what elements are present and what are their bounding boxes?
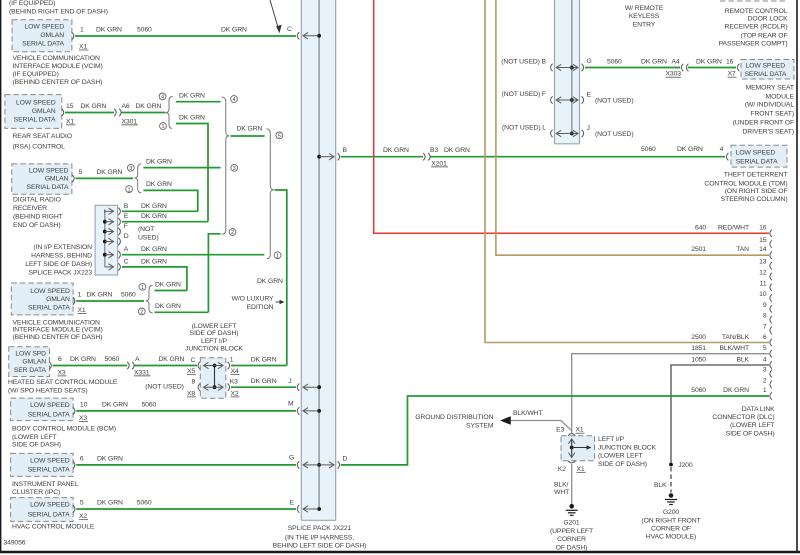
svg-text:5060: 5060 bbox=[691, 387, 706, 394]
svg-text:G200: G200 bbox=[663, 509, 680, 516]
svg-text:DK GRN: DK GRN bbox=[146, 158, 172, 165]
svg-text:BODY CONTROL MODULE (BCM): BODY CONTROL MODULE (BCM) bbox=[12, 426, 116, 433]
circled 2 VCIM2 bbox=[138, 308, 145, 316]
svg-text:1: 1 bbox=[128, 187, 131, 193]
wire RSA branch 4 bbox=[176, 93, 221, 102]
svg-text:SIDE OF DASH): SIDE OF DASH) bbox=[726, 430, 775, 437]
DLC pin 15 bbox=[759, 237, 772, 248]
svg-text:X201: X201 bbox=[431, 160, 447, 167]
DLC pin 7 bbox=[763, 324, 772, 335]
svg-text:5060: 5060 bbox=[607, 59, 622, 66]
svg-text:(ON RIGHT SIDE OF: (ON RIGHT SIDE OF bbox=[725, 188, 788, 195]
svg-text:VEHICLE COMMUNICATION: VEHICLE COMMUNICATION bbox=[13, 55, 100, 62]
HVAC module box bbox=[11, 498, 74, 522]
wire X2 to JX221 J bbox=[231, 378, 296, 387]
VCIM1 module label bbox=[13, 55, 103, 86]
wire JX223 B bbox=[122, 210, 198, 212]
DLC pin 2 bbox=[763, 378, 772, 389]
junction block row X8/X2 bbox=[145, 378, 239, 397]
svg-text:B: B bbox=[343, 147, 348, 154]
svg-text:LOW SPEED: LOW SPEED bbox=[30, 288, 70, 295]
svg-text:1: 1 bbox=[276, 253, 279, 259]
inline connector X331 bbox=[127, 362, 134, 369]
DLC pin 4 bbox=[691, 356, 772, 368]
circled 3 right bbox=[231, 164, 238, 172]
svg-text:5060: 5060 bbox=[121, 292, 136, 299]
digital radio branch brace bbox=[134, 164, 141, 193]
RCDLR label bbox=[719, 8, 788, 48]
svg-text:SERIAL DATA: SERIAL DATA bbox=[14, 117, 56, 124]
svg-text:X1: X1 bbox=[79, 44, 87, 51]
splice pack JX221 band bbox=[301, 0, 335, 520]
svg-text:SERIAL DATA: SERIAL DATA bbox=[736, 158, 778, 165]
DLC pin 13 bbox=[759, 259, 772, 270]
junction block lower label bbox=[598, 436, 656, 468]
svg-text:(LOWER LEFT: (LOWER LEFT bbox=[12, 434, 57, 441]
wire digital radio to brace bbox=[76, 169, 134, 178]
svg-text:W/O LUXURY: W/O LUXURY bbox=[232, 295, 274, 302]
svg-text:6: 6 bbox=[58, 356, 62, 363]
svg-text:J: J bbox=[288, 378, 291, 385]
svg-text:5: 5 bbox=[80, 500, 84, 507]
keyless tap L/J bbox=[502, 125, 634, 139]
DLC pin 16 bbox=[695, 224, 772, 237]
svg-text:SERIAL DATA: SERIAL DATA bbox=[27, 184, 69, 191]
svg-text:JUNCTION BLOCK: JUNCTION BLOCK bbox=[598, 444, 656, 451]
svg-text:LOW SPD: LOW SPD bbox=[15, 350, 46, 357]
wire RSA branch 1 down to JX223 E bbox=[176, 115, 208, 222]
wire brace2 output down to junction block X4 bbox=[257, 190, 287, 366]
svg-text:16: 16 bbox=[759, 224, 767, 231]
digital radio module label bbox=[13, 197, 63, 229]
circled 1 brace2 bbox=[274, 252, 281, 260]
svg-text:K2: K2 bbox=[558, 466, 566, 473]
svg-text:(NOT USED) L: (NOT USED) L bbox=[502, 125, 546, 132]
VCIM2 module label bbox=[13, 319, 103, 341]
svg-text:C: C bbox=[124, 258, 129, 265]
svg-text:A: A bbox=[135, 356, 140, 363]
svg-text:CORNER OF: CORNER OF bbox=[651, 526, 691, 533]
svg-text:C: C bbox=[287, 26, 292, 33]
circled 1 left RSA bbox=[160, 123, 167, 131]
digital radio module box bbox=[12, 164, 72, 194]
svg-text:(NOT: (NOT bbox=[138, 226, 154, 233]
keyless splice bus bbox=[571, 0, 573, 134]
svg-text:2: 2 bbox=[140, 310, 143, 316]
circled 2 right bbox=[229, 229, 236, 237]
svg-text:REMOTE CONTROL: REMOTE CONTROL bbox=[725, 8, 788, 15]
svg-text:RED/WHT: RED/WHT bbox=[718, 224, 749, 231]
wire IPC to JX221 G bbox=[76, 455, 296, 465]
svg-text:349056: 349056 bbox=[3, 539, 25, 546]
E3 X1 labels bbox=[556, 427, 584, 434]
svg-text:E: E bbox=[124, 213, 129, 220]
svg-text:X331: X331 bbox=[134, 369, 150, 376]
memory seat module label bbox=[733, 85, 795, 136]
svg-text:DK GRN: DK GRN bbox=[237, 126, 263, 133]
JX223 pin F (not used) bbox=[103, 223, 154, 235]
svg-text:DK GRN: DK GRN bbox=[97, 455, 123, 462]
ground G200 bbox=[665, 493, 677, 504]
RSA module box bbox=[5, 95, 62, 129]
svg-text:DK GRN: DK GRN bbox=[155, 303, 181, 310]
W/ REMOTE KEYLESS ENTRY label bbox=[625, 5, 664, 29]
svg-text:DK GRN: DK GRN bbox=[251, 356, 277, 363]
svg-text:(NOT USED) F: (NOT USED) F bbox=[502, 91, 546, 98]
svg-text:(BEHIND RIGHT END OF DASH): (BEHIND RIGHT END OF DASH) bbox=[9, 9, 108, 16]
svg-text:8: 8 bbox=[192, 378, 196, 385]
VCIM1 connector cup bbox=[72, 32, 74, 39]
node J200 bbox=[669, 462, 693, 469]
svg-text:10: 10 bbox=[759, 291, 767, 298]
svg-text:DK GRN: DK GRN bbox=[136, 103, 162, 110]
svg-text:X3: X3 bbox=[79, 415, 87, 422]
svg-text:INTERFACE MODULE (VCIM): INTERFACE MODULE (VCIM) bbox=[13, 327, 103, 334]
svg-text:F: F bbox=[124, 223, 128, 230]
svg-text:LOW SPEED: LOW SPEED bbox=[30, 502, 70, 509]
svg-text:DK GRN: DK GRN bbox=[251, 378, 277, 385]
TDM connector cup bbox=[726, 153, 728, 160]
svg-text:DK GRN: DK GRN bbox=[81, 103, 107, 110]
svg-text:SPLICE PACK JX223: SPLICE PACK JX223 bbox=[28, 269, 92, 276]
VCIM2 connector cup bbox=[73, 297, 75, 304]
svg-text:DK GRN: DK GRN bbox=[179, 93, 205, 100]
wire DR branch 1 down to JX223 B bbox=[143, 181, 197, 211]
svg-text:E: E bbox=[587, 92, 592, 99]
JX221 label bbox=[273, 525, 367, 549]
svg-text:5060: 5060 bbox=[137, 27, 152, 34]
svg-text:(LOWER LEFT: (LOWER LEFT bbox=[598, 453, 643, 460]
collector brace 2 bbox=[267, 129, 274, 259]
TDM module label bbox=[704, 172, 787, 204]
svg-text:HARNESS, BEHIND: HARNESS, BEHIND bbox=[31, 253, 92, 260]
RSA branch brace bbox=[166, 96, 173, 128]
svg-text:2: 2 bbox=[763, 378, 767, 385]
svg-text:GMLAN: GMLAN bbox=[45, 176, 69, 183]
svg-text:RECEIVER (RCDLR): RECEIVER (RCDLR) bbox=[725, 24, 788, 31]
svg-text:SPLICE PACK JX221: SPLICE PACK JX221 bbox=[288, 525, 352, 532]
svg-text:(NOT USED) B: (NOT USED) B bbox=[501, 59, 546, 66]
svg-text:(BEHIND CENTER OF DASH): (BEHIND CENTER OF DASH) bbox=[13, 79, 103, 86]
pointer arrow to wire bbox=[270, 0, 282, 33]
DLC pin 8 bbox=[763, 313, 772, 324]
wire BLK/WHT K2 to G201 bbox=[554, 464, 572, 504]
svg-text:DK GRN: DK GRN bbox=[179, 115, 205, 122]
svg-text:DK GRN: DK GRN bbox=[87, 292, 113, 299]
svg-text:DK GRN: DK GRN bbox=[97, 500, 123, 507]
svg-text:1: 1 bbox=[78, 292, 82, 299]
wire RSA to X301 to brace bbox=[65, 103, 166, 125]
wire VCIM2 branch 1 bbox=[155, 281, 187, 290]
svg-text:DK GRN: DK GRN bbox=[723, 387, 749, 394]
splice pack JX223 box bbox=[95, 205, 118, 275]
svg-text:(BEHIND CENTER OF DASH): (BEHIND CENTER OF DASH) bbox=[13, 334, 103, 341]
svg-text:SERIAL DATA: SERIAL DATA bbox=[28, 511, 70, 518]
svg-text:(RSA) CONTROL: (RSA) CONTROL bbox=[13, 144, 66, 151]
svg-text:(UPPER LEFT: (UPPER LEFT bbox=[550, 528, 593, 535]
circled 4 right bbox=[231, 96, 238, 104]
svg-text:(LOWER LEFT: (LOWER LEFT bbox=[192, 323, 237, 330]
svg-text:JUNCTION BLOCK: JUNCTION BLOCK bbox=[185, 345, 243, 352]
svg-text:LOW SPEED: LOW SPEED bbox=[29, 167, 69, 174]
svg-text:X2: X2 bbox=[231, 390, 239, 397]
svg-text:(LOWER LEFT: (LOWER LEFT bbox=[730, 422, 775, 429]
wire DK GRN DLC pin 1 to JX221 D bbox=[341, 396, 769, 465]
svg-text:10: 10 bbox=[80, 401, 88, 408]
K2 X1 labels bbox=[558, 466, 586, 473]
svg-text:BLK/WHT: BLK/WHT bbox=[719, 345, 749, 352]
ground G201 bbox=[566, 504, 578, 515]
svg-text:(UNDER FRONT OF: (UNDER FRONT OF bbox=[733, 120, 794, 127]
cut-off module label top left bbox=[9, 0, 108, 16]
svg-text:3: 3 bbox=[233, 166, 236, 172]
svg-text:FRONT SEAT): FRONT SEAT) bbox=[750, 111, 794, 118]
svg-text:DK GRN: DK GRN bbox=[221, 27, 247, 34]
JX223 pin B bbox=[105, 203, 167, 215]
svg-text:(BEHIND RIGHT: (BEHIND RIGHT bbox=[13, 213, 63, 220]
frame borders bbox=[0, 0, 2, 552]
svg-text:E3: E3 bbox=[556, 427, 564, 434]
IPC module box bbox=[11, 453, 74, 476]
svg-text:E: E bbox=[290, 500, 295, 507]
svg-text:GMLAN: GMLAN bbox=[32, 108, 56, 115]
svg-text:1050: 1050 bbox=[691, 356, 706, 363]
svg-text:J200: J200 bbox=[678, 462, 693, 469]
circled 4 left bbox=[159, 93, 166, 101]
svg-text:4: 4 bbox=[232, 97, 235, 103]
svg-text:(NOT USED): (NOT USED) bbox=[145, 383, 184, 390]
svg-text:X1: X1 bbox=[577, 466, 585, 473]
heated seat connector cup bbox=[49, 362, 51, 369]
wire JX223 A to brace2 bbox=[122, 254, 264, 256]
svg-text:3: 3 bbox=[763, 367, 767, 374]
svg-text:KEYLESS: KEYLESS bbox=[629, 13, 660, 20]
svg-text:(IF EQUIPPED): (IF EQUIPPED) bbox=[13, 71, 59, 78]
wire TAN to DLC pin 14 bbox=[496, 0, 769, 255]
DLC pin 12 bbox=[759, 270, 772, 281]
svg-text:INTERFACE MODULE (VCIM): INTERFACE MODULE (VCIM) bbox=[13, 63, 103, 70]
svg-text:BLK: BLK bbox=[736, 356, 749, 363]
junction block lower K2 bottom cup bbox=[568, 461, 575, 463]
wire JX223 E bbox=[122, 221, 208, 223]
svg-text:(NOT USED): (NOT USED) bbox=[595, 98, 634, 105]
JX221 tap G / D bbox=[289, 455, 348, 469]
svg-text:A4: A4 bbox=[672, 59, 680, 66]
JX223 pin C bbox=[105, 258, 167, 270]
wire BLK DLC pin 4 to J200 bbox=[671, 365, 769, 463]
svg-text:X1: X1 bbox=[66, 118, 74, 125]
wire BLK/WHT branch to ground distribution bbox=[500, 410, 572, 431]
junction block label upper bbox=[185, 323, 243, 353]
svg-text:B3: B3 bbox=[430, 147, 438, 154]
svg-text:TAN/BLK: TAN/BLK bbox=[722, 334, 750, 341]
ground distribution system label bbox=[415, 414, 494, 430]
svg-text:LOW SPEED: LOW SPEED bbox=[16, 100, 56, 107]
svg-text:LEFT I/P: LEFT I/P bbox=[598, 436, 624, 443]
svg-text:DK GRN: DK GRN bbox=[102, 401, 128, 408]
svg-text:5: 5 bbox=[763, 345, 767, 352]
svg-text:OF DASH): OF DASH) bbox=[556, 544, 588, 551]
svg-text:1: 1 bbox=[230, 357, 234, 364]
svg-text:X7: X7 bbox=[728, 71, 736, 78]
JX221 tap E bbox=[290, 500, 322, 513]
svg-text:(TOP REAR OF: (TOP REAR OF bbox=[741, 33, 788, 40]
svg-text:15: 15 bbox=[66, 103, 74, 110]
svg-text:LOW SPEED: LOW SPEED bbox=[24, 24, 64, 31]
svg-text:MODULE: MODULE bbox=[766, 93, 795, 100]
svg-text:G: G bbox=[289, 455, 294, 462]
DLC pin 1 bbox=[691, 387, 772, 400]
svg-text:TAN: TAN bbox=[736, 246, 749, 253]
svg-text:G201: G201 bbox=[563, 520, 580, 527]
wire VCIM2 branch 2 bbox=[155, 303, 209, 312]
junction block lower E3 top cup bbox=[568, 434, 575, 436]
wire G to memory seat module bbox=[585, 59, 737, 78]
svg-text:G: G bbox=[587, 58, 592, 65]
svg-text:X5: X5 bbox=[187, 368, 195, 375]
svg-text:LEFT SIDE OF DASH): LEFT SIDE OF DASH) bbox=[25, 261, 92, 268]
svg-text:LOW SPEED: LOW SPEED bbox=[30, 402, 70, 409]
svg-text:A: A bbox=[124, 246, 129, 253]
W/O LUXURY EDITION label bbox=[232, 295, 285, 311]
svg-text:SER DATA: SER DATA bbox=[14, 367, 47, 374]
JX221 tap M bbox=[288, 401, 321, 415]
svg-text:BLK/WHT: BLK/WHT bbox=[513, 410, 543, 417]
svg-text:SIDE OF DASH): SIDE OF DASH) bbox=[190, 330, 239, 337]
VCIM module box 1 bbox=[12, 20, 72, 52]
keyless tap F/E bbox=[502, 91, 634, 105]
svg-text:DOOR LOCK: DOOR LOCK bbox=[748, 16, 788, 23]
svg-text:SERIAL DATA: SERIAL DATA bbox=[28, 411, 70, 418]
svg-text:CLUSTER (IPC): CLUSTER (IPC) bbox=[12, 489, 60, 496]
svg-text:DK GRN: DK GRN bbox=[383, 147, 409, 154]
svg-text:5060: 5060 bbox=[137, 500, 152, 507]
svg-text:PASSENGER COMPT): PASSENGER COMPT) bbox=[719, 41, 788, 48]
svg-text:W/ REMOTE: W/ REMOTE bbox=[625, 5, 664, 12]
svg-text:GMLAN: GMLAN bbox=[40, 32, 64, 39]
svg-text:X303: X303 bbox=[666, 71, 682, 78]
svg-text:SIDE OF DASH): SIDE OF DASH) bbox=[598, 461, 647, 468]
svg-text:(IF EQUIPPED): (IF EQUIPPED) bbox=[9, 0, 55, 7]
svg-text:12: 12 bbox=[759, 270, 767, 277]
svg-text:GMLAN: GMLAN bbox=[22, 359, 46, 366]
left I/P junction block box bbox=[200, 358, 226, 399]
svg-text:6: 6 bbox=[763, 334, 767, 341]
svg-text:DK GRN: DK GRN bbox=[141, 213, 167, 220]
svg-text:14: 14 bbox=[759, 246, 767, 253]
svg-text:DK GRN: DK GRN bbox=[141, 203, 167, 210]
svg-text:DRIVER'S SEAT): DRIVER'S SEAT) bbox=[742, 129, 794, 136]
svg-text:DK GRN: DK GRN bbox=[257, 278, 283, 285]
svg-text:(W/ SPO HEATED SEATS): (W/ SPO HEATED SEATS) bbox=[8, 387, 88, 394]
svg-text:D: D bbox=[343, 456, 348, 463]
svg-text:INSTRUMENT PANEL: INSTRUMENT PANEL bbox=[12, 481, 79, 488]
junction block row X5/X4 bbox=[198, 357, 239, 376]
G200 label bbox=[641, 509, 700, 541]
TDM module box bbox=[731, 145, 787, 167]
svg-text:HVAC MODULE): HVAC MODULE) bbox=[646, 534, 696, 541]
svg-text:(NOT USED): (NOT USED) bbox=[595, 131, 634, 138]
svg-text:2500: 2500 bbox=[691, 334, 706, 341]
svg-text:EDITION: EDITION bbox=[247, 304, 274, 311]
svg-text:DK GRN: DK GRN bbox=[96, 27, 122, 34]
svg-text:DK GRN: DK GRN bbox=[97, 169, 123, 176]
DLC pin 14 bbox=[691, 246, 772, 259]
svg-text:1: 1 bbox=[161, 124, 164, 130]
wire X4 to luxury vertical bbox=[231, 356, 287, 365]
IPC module label bbox=[12, 481, 79, 496]
HVAC connector cup bbox=[73, 505, 75, 512]
svg-text:X8: X8 bbox=[187, 390, 195, 397]
svg-text:HVAC CONTROL MODULE: HVAC CONTROL MODULE bbox=[12, 523, 95, 530]
svg-text:1: 1 bbox=[763, 387, 767, 394]
svg-text:THEFT DETERRENT: THEFT DETERRENT bbox=[724, 172, 788, 179]
svg-text:5: 5 bbox=[278, 134, 281, 140]
svg-text:BEHIND LEFT SIDE OF DASH): BEHIND LEFT SIDE OF DASH) bbox=[273, 543, 367, 550]
inline connector X201 bbox=[423, 153, 430, 160]
wire net 2 vertical to VCIM2 branch 2 bbox=[208, 234, 220, 312]
RCDLR dashed box remnant bbox=[720, 0, 785, 2]
circled 5 bbox=[276, 132, 283, 140]
svg-text:SIDE OF DASH): SIDE OF DASH) bbox=[12, 442, 61, 449]
svg-text:STEERING COLUMN): STEERING COLUMN) bbox=[721, 196, 788, 203]
wire DR branch 3 bbox=[143, 158, 220, 167]
svg-text:16: 16 bbox=[726, 59, 734, 66]
svg-text:LEFT I/P: LEFT I/P bbox=[201, 338, 227, 345]
svg-text:640: 640 bbox=[695, 224, 706, 231]
svg-text:DK GRN: DK GRN bbox=[696, 59, 722, 66]
svg-text:REAR SEAT AUDIO: REAR SEAT AUDIO bbox=[13, 133, 72, 140]
collector brace 1 bbox=[222, 97, 230, 234]
memory seat module connector cup bbox=[737, 64, 739, 71]
wire VCIM2 to brace bbox=[76, 292, 144, 314]
RSA connector cup bbox=[62, 109, 64, 116]
svg-text:B: B bbox=[124, 203, 129, 210]
JX223 pin A bbox=[103, 246, 167, 258]
svg-text:M: M bbox=[288, 401, 294, 408]
svg-text:X301: X301 bbox=[122, 118, 138, 125]
svg-text:GROUND DISTRIBUTION: GROUND DISTRIBUTION bbox=[415, 414, 493, 421]
wire RED/WHT to DLC pin 16 bbox=[374, 0, 769, 233]
RSA module label bbox=[13, 133, 72, 151]
svg-text:2: 2 bbox=[231, 230, 234, 236]
svg-text:LOW SPEED: LOW SPEED bbox=[746, 62, 786, 69]
svg-text:K3: K3 bbox=[230, 378, 238, 385]
circled 1 left DR bbox=[126, 186, 133, 194]
svg-text:1851: 1851 bbox=[691, 345, 706, 352]
svg-text:DK GRN: DK GRN bbox=[146, 181, 172, 188]
svg-text:WHT: WHT bbox=[554, 489, 569, 496]
DLC pin 11 bbox=[760, 280, 772, 291]
svg-text:A6: A6 bbox=[122, 103, 130, 110]
BCM connector cup bbox=[73, 407, 75, 414]
svg-text:DK GRN: DK GRN bbox=[141, 258, 167, 265]
heated seat module label bbox=[8, 379, 118, 394]
keyless tap B/G bbox=[501, 58, 591, 71]
svg-text:C: C bbox=[191, 357, 196, 364]
svg-text:13: 13 bbox=[759, 259, 767, 266]
inline connector X303 bbox=[681, 64, 688, 71]
svg-text:CORNER: CORNER bbox=[557, 536, 586, 543]
svg-text:X4: X4 bbox=[231, 368, 239, 375]
svg-text:1: 1 bbox=[80, 27, 84, 34]
svg-text:X1: X1 bbox=[576, 427, 584, 434]
svg-text:DK GRN: DK GRN bbox=[444, 147, 470, 154]
wire JX223 C down to VCIM2 branch bbox=[122, 267, 187, 291]
svg-text:(W/ INDIVIDUAL: (W/ INDIVIDUAL bbox=[745, 102, 795, 109]
BCM module label bbox=[12, 426, 116, 449]
JX223 label bbox=[25, 244, 92, 276]
